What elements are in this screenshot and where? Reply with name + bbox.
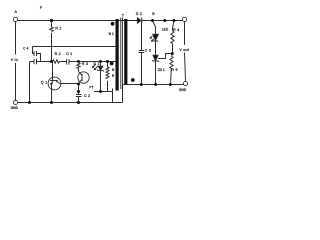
svg-text:C 2: C 2 <box>84 94 90 98</box>
svg-text:R 5: R 5 <box>171 68 177 72</box>
svg-text:D 1: D 1 <box>93 62 99 66</box>
svg-text:R 3: R 3 <box>82 62 88 66</box>
svg-text:R 4: R 4 <box>173 28 179 32</box>
svg-text:GND: GND <box>11 106 19 110</box>
svg-text:N 2: N 2 <box>112 68 117 72</box>
svg-text:C 3: C 3 <box>145 49 151 53</box>
svg-text:C 1: C 1 <box>66 52 72 56</box>
svg-text:GND: GND <box>179 88 187 92</box>
svg-text:Q 1: Q 1 <box>41 81 48 85</box>
svg-text:V in: V in <box>11 58 18 62</box>
svg-text:N 1: N 1 <box>109 32 114 36</box>
svg-text:C 4: C 4 <box>23 47 28 51</box>
svg-text:A: A <box>15 10 18 14</box>
svg-text:ZD 1: ZD 1 <box>158 68 165 72</box>
svg-text:PT: PT <box>89 86 93 90</box>
svg-text:R 2: R 2 <box>55 52 61 56</box>
svg-text:B: B <box>152 12 155 16</box>
svg-text:R 6: R 6 <box>112 74 117 78</box>
svg-text:D 2: D 2 <box>136 12 142 16</box>
svg-text:LED: LED <box>162 28 169 32</box>
svg-text:V out: V out <box>179 48 189 52</box>
svg-text:R 1: R 1 <box>55 26 61 30</box>
